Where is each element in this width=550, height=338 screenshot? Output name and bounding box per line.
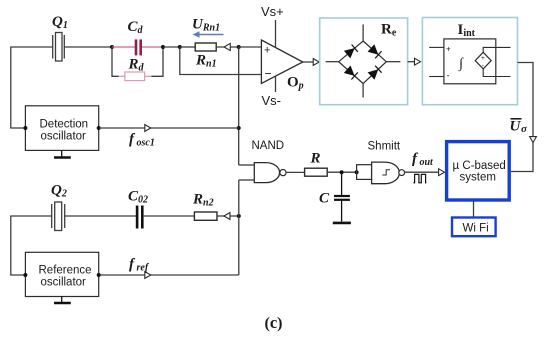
integrator - input stub: [429, 76, 444, 78]
reference oscillator box: [25, 252, 98, 296]
node A (Q1 / Cd-Rd junction): [110, 45, 114, 49]
node K (ref osc input): [23, 273, 27, 277]
svg-text:Reference: Reference: [39, 265, 92, 277]
NAND output wire: [286, 171, 305, 173]
node I (det osc output): [97, 126, 101, 130]
bridge right stub: [386, 61, 400, 63]
crystal Q1: [53, 33, 112, 62]
integrator inner box U2: [444, 39, 496, 84]
svg-text:system: system: [460, 172, 496, 184]
label Usigma (U with bar, sigma subscript): [510, 119, 529, 135]
op-amp output wire with arrow: [303, 61, 314, 63]
WiFi box: [452, 218, 496, 237]
bridge left stub: [326, 61, 339, 63]
svg-text:+: +: [481, 55, 485, 62]
node G (schmitt input): [355, 170, 359, 174]
square wave symbol: [413, 174, 426, 182]
diode D3 bottom-left: [344, 66, 358, 80]
svg-text:R: R: [310, 151, 321, 167]
node E (fosc1 junction): [237, 126, 241, 130]
NAND input 2 wire: [239, 179, 255, 181]
resistor Rn1: [180, 46, 195, 48]
op-amp U1: [261, 40, 302, 83]
wire node D down to NAND input 1: [238, 47, 240, 165]
wire node B to node C: [163, 46, 180, 48]
svg-text:oscillator: oscillator: [41, 131, 87, 143]
resistor R: [305, 168, 328, 176]
ground (C branch): [333, 222, 351, 225]
svg-text:Vs-: Vs-: [262, 93, 282, 108]
wire Rn1 right to node D with left arrowhead: [216, 46, 239, 48]
diode D4 bottom-right: [368, 66, 382, 80]
capacitor C branch: [334, 172, 350, 221]
wire fref: [99, 274, 239, 276]
node B: [161, 45, 165, 49]
wire Usigma from integrator to uC system: [511, 63, 533, 172]
uC-based system box: [447, 142, 510, 200]
svg-text:U: U: [510, 119, 522, 135]
svg-text:+: +: [446, 45, 451, 54]
capacitor Cd (red): [112, 39, 163, 55]
resistor Rn2: [194, 212, 217, 220]
node J: [237, 214, 241, 218]
resistor Rd (red) branch: [112, 47, 163, 81]
wire feedback loop to op-amp inverting input: [180, 47, 262, 75]
diode D2 top-right: [368, 44, 382, 58]
svg-text:+: +: [264, 45, 270, 57]
svg-text:−: −: [265, 67, 272, 81]
wire bottom-left corner from Q2 down to reference oscillator: [11, 216, 52, 275]
wire top-left corner from Q1 down to detection oscillator: [11, 47, 52, 128]
schmitt trigger gate: [372, 162, 400, 184]
wire Rn2 to node J with left arrowhead: [217, 215, 239, 217]
Vs+ supply stub: [275, 20, 277, 47]
ground (det osc): [54, 150, 71, 157]
svg-text:Detection: Detection: [40, 119, 89, 131]
crystal Q2: [52, 202, 136, 231]
svg-text:C: C: [319, 191, 330, 207]
detection oscillator box: [25, 106, 98, 151]
wire uC to WiFi: [473, 200, 475, 217]
integrator top output wire: [483, 47, 510, 52]
Vs- supply stub: [275, 76, 277, 92]
wire R to schmitt: [327, 171, 356, 173]
svg-text:Wi Fi: Wi Fi: [463, 223, 489, 235]
wire fosc1: [99, 127, 239, 129]
svg-text:Vs+: Vs+: [261, 4, 284, 19]
svg-text:-: -: [447, 71, 450, 81]
node H (det osc input): [23, 126, 27, 130]
node C: [178, 45, 182, 49]
svg-text:Shmitt: Shmitt: [368, 141, 401, 153]
node D (op-amp + input node): [237, 45, 241, 49]
ground (ref osc): [54, 297, 71, 304]
NAND input 1 wire: [239, 164, 255, 166]
node L (ref osc output): [97, 273, 101, 277]
schmitt input tie rectangle: [357, 165, 372, 180]
wire schmitt to uC with arrow fout: [405, 171, 439, 173]
wire node D to op-amp + input: [239, 46, 262, 48]
svg-text:oscillator: oscillator: [41, 277, 87, 289]
NAND gate: [254, 163, 279, 183]
svg-text:µ C-based: µ C-based: [453, 160, 506, 172]
hysteresis symbol: [382, 170, 390, 175]
node F (RC junction): [340, 170, 344, 174]
NAND bubble: [280, 170, 286, 176]
schmitt bubble: [399, 170, 405, 176]
svg-text:(c): (c): [265, 313, 283, 332]
bridge top stub: [362, 24, 364, 41]
capacitor C02: [136, 206, 144, 229]
integrator bottom output wire: [483, 69, 510, 77]
arrow down on Usigma wire: [530, 137, 537, 143]
wire bridge to integrator with arrow: [408, 61, 415, 63]
wire NAND input2 down to fref corner: [238, 180, 240, 275]
integrator + input stub: [429, 46, 444, 48]
bridge rectifier box Re: [320, 18, 408, 105]
svg-text:NAND: NAND: [252, 140, 285, 152]
bridge diamond: [339, 41, 387, 84]
dependent source diamond: [475, 52, 491, 69]
diode D1 top-left: [344, 45, 358, 59]
integrator box Iint: [422, 18, 517, 105]
bridge bottom stub: [362, 84, 364, 98]
blue arrow URn1: [193, 31, 224, 37]
